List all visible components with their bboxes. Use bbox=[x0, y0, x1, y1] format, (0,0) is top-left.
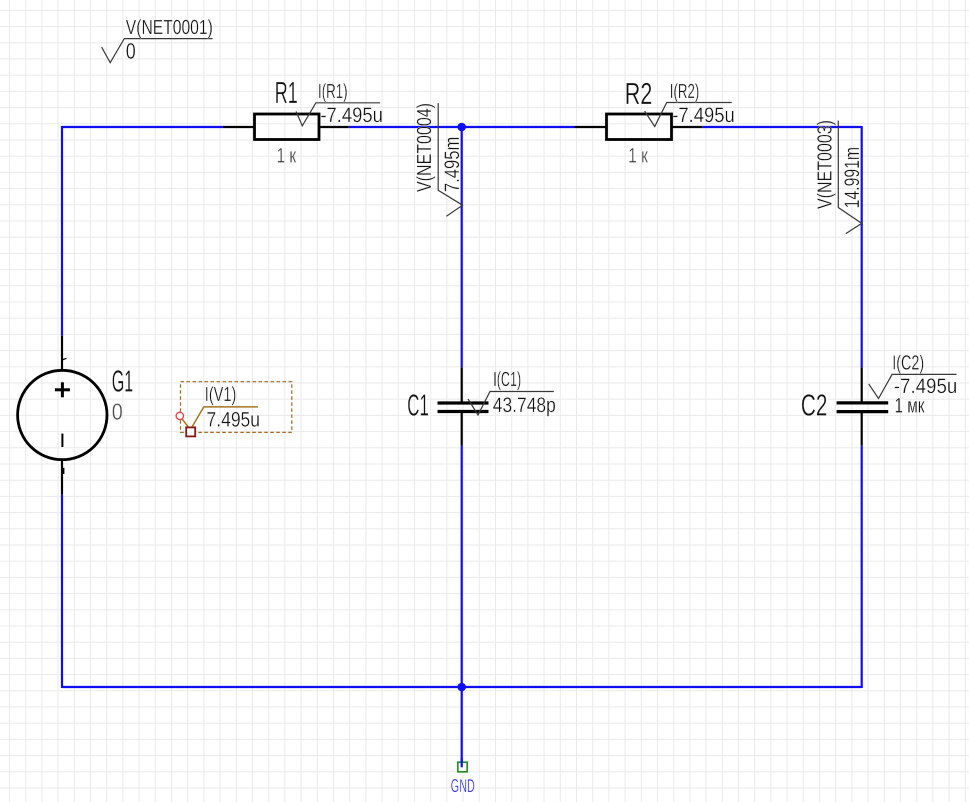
wire: right vertical, C2 to bottom corner bbox=[861, 445, 863, 688]
ground terminal GND bbox=[451, 758, 475, 796]
probe V(NET0004) (rotated) bbox=[414, 103, 464, 216]
wire: middle vertical, C1 to bottom net bbox=[461, 445, 463, 687]
probe I(V1) (selected) bbox=[180, 384, 260, 432]
svg-text:1 к: 1 к bbox=[277, 144, 297, 167]
selection box around probe I(V1) bbox=[181, 382, 292, 433]
svg-text:-7.495u: -7.495u bbox=[672, 104, 735, 127]
svg-text:I(R1): I(R1) bbox=[318, 81, 348, 103]
svg-text:I(C1): I(C1) bbox=[493, 369, 521, 391]
svg-text:R1: R1 bbox=[275, 76, 298, 110]
svg-text:-7.495u: -7.495u bbox=[894, 375, 958, 398]
wire: middle vertical, node NET0004 to C1 bbox=[461, 127, 463, 367]
svg-text:7.495m: 7.495m bbox=[441, 137, 464, 193]
probe I(R2) bbox=[645, 81, 735, 127]
svg-text:43.748p: 43.748p bbox=[493, 394, 556, 417]
probe V(NET0001) bbox=[102, 17, 213, 63]
probe V(NET0003) (rotated) bbox=[815, 120, 864, 234]
svg-text:C2: C2 bbox=[801, 388, 828, 422]
svg-text:1 к: 1 к bbox=[628, 144, 648, 167]
wire: top net, R1 to R2 bbox=[349, 126, 575, 128]
capacitor C1 bbox=[407, 367, 488, 445]
probe I(C1) bbox=[468, 369, 556, 417]
wire: top net, G1 to R1 bbox=[62, 126, 223, 128]
svg-text:R2: R2 bbox=[625, 77, 653, 111]
svg-text:V(NET0001): V(NET0001) bbox=[126, 17, 213, 39]
svg-text:V(NET0004): V(NET0004) bbox=[414, 103, 436, 192]
wire: left vertical, G1 to bottom corner bbox=[61, 495, 63, 688]
svg-text:-7.495u: -7.495u bbox=[320, 104, 383, 127]
capacitor C2 bbox=[801, 367, 888, 445]
probe I(R1) bbox=[296, 81, 383, 127]
pin 1 tick (G1 top) bbox=[62, 358, 67, 360]
svg-text:I(C2): I(C2) bbox=[892, 352, 924, 374]
selection handle square bbox=[186, 427, 195, 436]
wire: left vertical, top corner to G1 bbox=[61, 126, 63, 336]
wire: stub to GND terminal bbox=[461, 687, 463, 767]
resistor R2 bbox=[575, 77, 703, 140]
wire: right vertical, corner to C2 bbox=[861, 126, 863, 367]
wire: bottom ground net bbox=[62, 686, 862, 688]
junction: node NET0004 bbox=[457, 123, 466, 132]
wire: top net, R2 to right corner bbox=[702, 126, 861, 128]
resistor R1 bbox=[223, 76, 349, 139]
voltage source G1 bbox=[18, 336, 134, 495]
svg-text:7.495u: 7.495u bbox=[207, 409, 261, 432]
svg-text:V(NET0003): V(NET0003) bbox=[815, 120, 837, 209]
svg-text:0: 0 bbox=[126, 38, 136, 63]
selection handle circle bbox=[176, 412, 183, 419]
svg-text:14.991m: 14.991m bbox=[841, 147, 864, 209]
svg-text:0: 0 bbox=[112, 398, 123, 424]
junction: ground net bbox=[457, 683, 466, 692]
svg-text:GND: GND bbox=[451, 775, 475, 796]
svg-text:C1: C1 bbox=[407, 389, 429, 423]
probe I(C2) bbox=[869, 352, 958, 398]
svg-text:I(R2): I(R2) bbox=[670, 81, 700, 103]
svg-text:I(V1): I(V1) bbox=[205, 384, 237, 406]
pin 2 tick (G1 bottom) bbox=[63, 468, 65, 474]
svg-text:G1: G1 bbox=[112, 365, 134, 399]
